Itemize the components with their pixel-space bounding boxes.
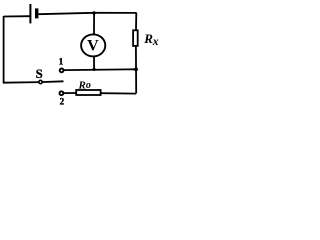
switch S pole contact (open dot)	[39, 80, 42, 83]
svg-text:V: V	[87, 37, 99, 54]
junction dot where wire 1 meets right vertical	[134, 68, 138, 72]
resistor Rx body	[133, 30, 138, 46]
wire right vertical upper (to Rx)	[135, 13, 137, 30]
battery cell: long plate	[29, 4, 31, 23]
wire right vertical lower (Rx to bottom corner)	[135, 46, 137, 93]
wire from terminal 1 to right vertical	[64, 68, 136, 71]
junction dot at voltmeter bottom	[93, 68, 96, 71]
voltmeter U1 circle	[81, 34, 105, 56]
wire top-left from corner to battery	[4, 15, 30, 17]
terminal 1 contact circle	[60, 69, 64, 73]
wire voltmeter upper lead	[93, 13, 95, 35]
svg-text:2: 2	[60, 96, 65, 106]
battery cell: short thick plate	[35, 8, 38, 18]
svg-text:x: x	[152, 36, 159, 48]
junction dot at voltmeter top	[92, 11, 95, 14]
svg-text:R: R	[78, 79, 86, 91]
svg-text:1: 1	[59, 57, 64, 67]
svg-text:S: S	[36, 67, 43, 81]
wire from terminal 2 to Ro	[64, 92, 76, 94]
wire left vertical	[3, 16, 5, 83]
wire top from battery to right corner	[38, 13, 136, 14]
svg-text:R: R	[143, 31, 153, 46]
wire switch pole (bottom-left horizontal)	[3, 81, 64, 82]
svg-text:o: o	[86, 80, 91, 91]
resistor Ro body	[76, 90, 100, 95]
terminal 2 contact circle	[60, 91, 64, 95]
wire from Ro to bottom-right corner	[101, 92, 136, 94]
wire voltmeter lower lead	[93, 57, 95, 70]
